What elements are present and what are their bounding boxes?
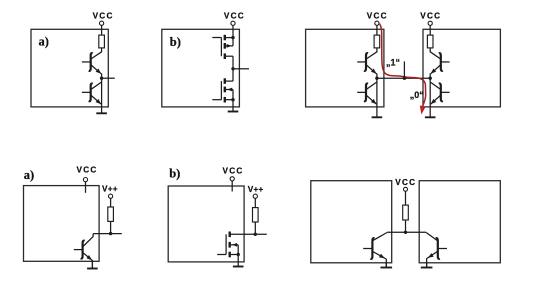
ground (circuit a) [96,104,107,114]
junction dot M1 source/bulk at VCC rail [231,36,234,39]
svg-text:VCC: VCC [93,12,114,21]
VCC terminal circle (circuit b) [231,21,235,25]
svg-text:VCC: VCC [224,11,245,20]
VCC label (bottom-middle) [223,167,244,176]
junction dot M3 source/bulk [237,253,240,256]
wire resistor to Q3 (left gate) [376,48,378,52]
p-MOSFET M1 bulk lead with arrow (PMOS) [226,38,233,48]
wire resistor to output node (bottom-left) [110,221,112,233]
IC outline box left gate (top-right) [306,29,384,107]
p-MOSFET M1 channel segments [224,35,226,59]
VCC label (circuit b top) [224,11,245,20]
wire VCC to resistor (right gate) [429,25,431,35]
node output junction dot (right gate) [429,77,432,80]
p-MOSFET M1 source lead [226,37,233,39]
label b) (bottom-middle) [169,166,180,180]
wire VCC stub into IC (bottom-middle) [231,181,233,192]
VCC label (right gate) [420,11,441,20]
wire resistor to Q1 collector [101,48,103,52]
wire V++ to resistor (bottom-left) [110,198,112,207]
n-MOSFET M2 bulk lead with arrow (NMOS) [226,88,233,100]
junction dot middle of shared output wire [403,77,406,80]
IC outline box circuit a (bottom-left) [24,186,100,262]
p-MOSFET M1 gate lead [212,37,221,39]
svg-text:VCC: VCC [77,166,98,175]
IC outline box left (bottom-right) [311,181,392,263]
resistor pull-up (right gate) [427,35,433,48]
wire VCC to M1 source (circuit b) [232,25,234,37]
ground (left gate) [372,104,383,118]
label b) (top) [170,35,181,49]
wire Q2 emitter to ground (circuit a) [0,0,1,1]
wire resistor to output node (bottom-middle) [254,222,256,234]
ground (bottom-right right box) [421,262,433,268]
resistor R1 (circuit a pull-up) [99,35,105,48]
n-MOSFET M3 gate lead [217,254,226,256]
svg-text:VCC: VCC [420,11,441,20]
svg-text:VCC: VCC [395,178,416,187]
junction dot output node (bottom-middle) [254,233,257,236]
wire VCC to resistor (bottom-right) [405,191,407,205]
transistor Q9 (open-collector NPN mirrored, right box) [426,233,447,268]
wire VCC to resistor (circuit a) [101,25,103,35]
wire shared output (bottom-right) [387,231,426,233]
wire VCC stub into IC (bottom-left) [85,182,87,193]
transistor Q5 (upper NPN mirrored, right gate) [430,52,449,78]
svg-text:b): b) [169,166,180,180]
transistor Q7 (open-collector NPN) [74,234,93,269]
n-MOSFET M3 channel segments [228,232,230,258]
label „0“ logic level [410,90,424,100]
ground (circuit b) [228,100,239,112]
VCC terminal circle (bottom-right) [404,187,408,191]
svg-text:VCC: VCC [367,11,388,20]
VCC terminal circle (circuit a) [100,21,104,25]
svg-text:a): a) [39,34,49,48]
wire VCC to resistor (left gate) [376,25,378,35]
n-MOSFET M3 source lead [231,254,239,256]
transistor Q6 (lower NPN mirrored, right gate) [430,78,449,104]
transistor Q3 (upper NPN, left gate) [357,52,377,78]
node output junction dot (circuit b) [231,67,234,70]
wire stub up from middle junction [403,61,405,78]
V++ terminal circle (bottom-left) [109,194,113,198]
resistor pull-up (left gate) [374,35,380,48]
VCC label (circuit a top-left) [93,12,114,21]
V++ label (bottom-middle) [248,185,264,194]
wire output stub (circuit a) [102,77,115,79]
red arrowhead (short-circuit current into ground) [420,106,426,115]
red short-circuit current path [380,24,426,107]
VCC label (left gate) [367,11,388,20]
ground (bottom-middle) [233,255,244,267]
VCC label (bottom-right) [395,178,416,187]
n-MOSFET M2 gate lead [212,99,221,101]
n-MOSFET M3 gate bar [225,234,227,254]
svg-text:„1“: „1“ [386,57,400,67]
ground (right gate) [425,104,436,118]
VCC terminal circle (bottom-middle) [230,177,234,181]
wire V++ to resistor (bottom-middle) [254,198,256,207]
wire resistor to Q5 (right gate) [429,48,431,52]
svg-text:b): b) [170,35,181,49]
transistor Q4 (lower NPN, left gate) [357,78,377,104]
svg-text:„0“: „0“ [410,90,424,100]
IC outline box circuit b (bottom-middle) [168,186,244,262]
wire output stub (circuit b) [233,68,249,70]
junction dot output node (bottom-left) [109,232,112,235]
IC outline box circuit b (top) [162,29,240,107]
svg-text:V++: V++ [102,184,118,193]
IC outline box right (bottom-right) [419,181,500,263]
IC outline box right gate (top-right) [423,29,500,107]
transistor Q8 (open-collector NPN, left box) [363,233,387,268]
VCC label (bottom-left) [77,166,98,175]
junction dot shared output node [404,231,407,234]
n-MOSFET M3 bulk lead with arrow (NMOS) [231,243,239,255]
svg-text:V++: V++ [248,185,264,194]
n-MOSFET M2 channel segments [224,78,226,102]
node output junction dot (circuit a) [100,77,103,80]
wire connecting both outputs (top-right) [377,77,430,79]
VCC terminal circle (right gate) [428,21,432,25]
resistor external pull-up (bottom-middle) [253,208,259,222]
V++ terminal circle (bottom-middle) [253,194,257,198]
VCC terminal circle (left gate) [375,21,379,25]
wire output / drain lead (bottom-middle) [230,233,267,235]
wire resistor to shared node (bottom-right) [405,220,407,232]
ground (bottom-left) [87,260,98,268]
V++ label (bottom-left) [102,184,118,193]
resistor shared pull-up (bottom-right) [403,205,409,220]
label „1“ logic level [386,57,400,67]
label a) (bottom-left) [24,168,34,182]
n-MOSFET M2 drain lead [226,69,233,81]
IC outline box circuit a (top-left) [31,29,108,107]
transistor Q2 (lower NPN, circuit a) [82,78,102,104]
VCC terminal circle (bottom-left) [83,178,87,182]
n-MOSFET M2 source lead [226,99,233,101]
junction dot M2 source/bulk [231,98,234,101]
wire output (bottom-left) [93,233,122,235]
n-MOSFET M2 gate bar [220,81,222,100]
transistor Q1 (upper NPN, circuit a) [82,52,102,78]
label a) (top-left) [39,34,49,48]
svg-text:VCC: VCC [223,167,244,176]
ground (bottom-right left box) [381,262,393,268]
p-MOSFET M1 gate bar [220,38,222,57]
resistor external pull-up (bottom-left) [108,207,114,221]
svg-text:a): a) [24,168,34,182]
p-MOSFET M1 drain lead [226,56,233,69]
node output junction dot (left gate) [375,77,378,80]
